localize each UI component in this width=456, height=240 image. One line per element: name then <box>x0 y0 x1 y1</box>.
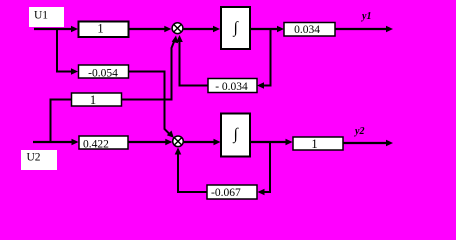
svg-text:1: 1 <box>90 93 96 107</box>
svg-text:0.422: 0.422 <box>83 139 109 151</box>
svg-text:-0.054: -0.054 <box>88 68 118 80</box>
svg-text:0.034: 0.034 <box>294 24 320 36</box>
svg-text:1: 1 <box>311 137 317 151</box>
svg-text:U2: U2 <box>27 152 41 164</box>
svg-text:1: 1 <box>97 22 103 36</box>
svg-text:y1: y1 <box>361 11 371 22</box>
svg-text:-0.067: -0.067 <box>211 187 241 199</box>
svg-text:- 0.034: - 0.034 <box>215 81 248 93</box>
svg-text:U1: U1 <box>34 10 48 22</box>
svg-text:y2: y2 <box>354 126 364 137</box>
